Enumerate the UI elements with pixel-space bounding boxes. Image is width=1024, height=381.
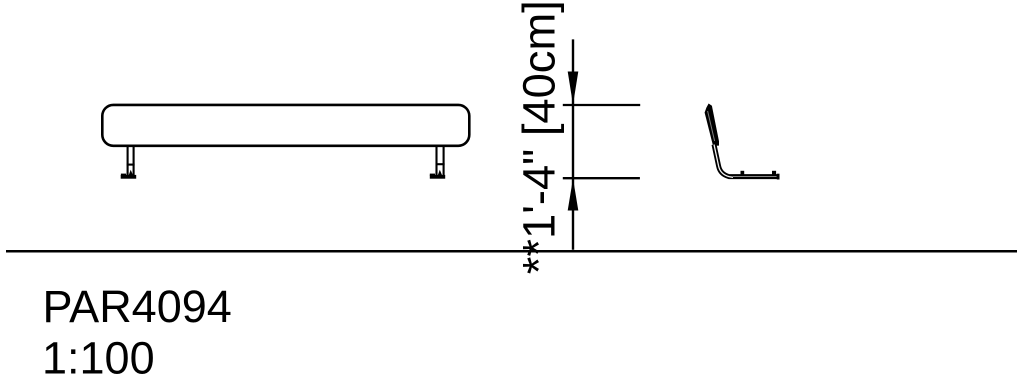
bottom extension line: [563, 177, 640, 179]
right leg: [436, 146, 445, 175]
right foot: [430, 175, 445, 179]
down arrow: [568, 72, 579, 105]
side view: thick slanted plank: [705, 104, 719, 146]
svg-text:PAR4094: PAR4094: [43, 281, 232, 332]
top extension line: [563, 104, 640, 106]
dimension vertical line: [572, 39, 574, 249]
svg-text:1:100: 1:100: [42, 333, 155, 381]
left foot: [121, 175, 137, 179]
lug 2: [772, 171, 776, 176]
ground line: [6, 250, 1017, 253]
svg-text:**1'-4" [40cm]: **1'-4" [40cm]: [514, 0, 565, 274]
left leg wedge: [129, 170, 133, 175]
bench seat slab (front view): [102, 105, 469, 146]
left leg: [127, 146, 135, 175]
side view: leg tube: [714, 145, 778, 177]
lug 1: [741, 171, 745, 176]
end cap: [777, 174, 780, 180]
right leg wedge: [438, 170, 442, 175]
up arrow: [568, 178, 579, 210]
